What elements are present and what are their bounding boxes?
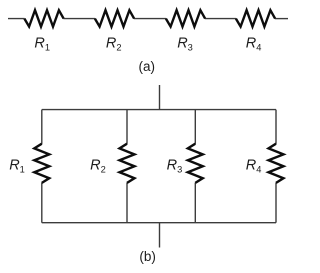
svg-text:R3: R3	[177, 35, 193, 52]
svg-text:R3: R3	[167, 157, 183, 174]
svg-text:R1: R1	[9, 157, 25, 174]
svg-text:R2: R2	[106, 35, 122, 52]
svg-text:R4: R4	[246, 157, 262, 174]
svg-text:(a): (a)	[139, 59, 156, 74]
svg-text:R4: R4	[246, 35, 262, 52]
svg-text:(b): (b)	[139, 249, 156, 264]
svg-text:R2: R2	[90, 157, 106, 174]
svg-text:R1: R1	[34, 35, 50, 52]
